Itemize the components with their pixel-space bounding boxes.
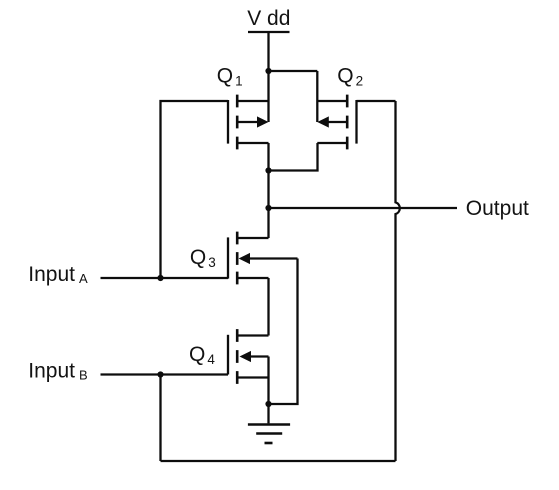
svg-text:InputA: InputA	[28, 263, 88, 286]
wire Input A riser to Q1 gate	[161, 101, 229, 278]
wire Input B	[101, 373, 229, 375]
transistor Q1	[228, 95, 269, 150]
wire Q1 source-bulk riser	[267, 71, 269, 122]
svg-text:Q3: Q3	[190, 246, 216, 270]
power rail Vdd bar	[248, 31, 290, 33]
wire Q3 bulk to ground node	[269, 259, 298, 405]
junction input B node	[157, 371, 163, 377]
wire Q2 source-bulk riser	[316, 71, 318, 122]
svg-text:Q4: Q4	[189, 343, 215, 367]
wire output	[269, 207, 458, 209]
wire Q2 gate lead	[357, 100, 396, 102]
wire Q2 drain down	[269, 143, 318, 171]
svg-text:InputB: InputB	[28, 359, 87, 382]
svg-text:Output: Output	[466, 197, 529, 220]
wire Input B to bottom rail	[159, 375, 161, 462]
wire bottom rail	[161, 460, 396, 462]
junction Vdd node	[265, 68, 271, 74]
wire Input A	[101, 277, 229, 279]
transistor Q4	[228, 329, 269, 384]
wire drain node to output node	[267, 171, 269, 209]
junction drain node	[265, 167, 271, 173]
wire Vdd stem	[267, 32, 269, 71]
transistor Q3	[228, 232, 298, 285]
wire Q1 drain down	[267, 143, 269, 171]
wire output node to Q3 drain	[267, 208, 269, 238]
junction input A node	[157, 275, 163, 281]
junction output node	[265, 205, 271, 211]
junction ground node	[265, 401, 271, 407]
svg-text:V dd: V dd	[247, 7, 290, 30]
wire Q3 source to Q4 drain	[267, 278, 269, 336]
wire Vdd branch to Q2	[269, 70, 318, 72]
wire feedback riser to Q2 gate with hop	[396, 101, 400, 461]
transistor Q2	[317, 95, 356, 150]
svg-text:Q1: Q1	[217, 64, 243, 88]
wire Q4 source-bulk down	[267, 357, 269, 405]
svg-text:Q2: Q2	[337, 64, 363, 88]
ground	[248, 404, 290, 443]
